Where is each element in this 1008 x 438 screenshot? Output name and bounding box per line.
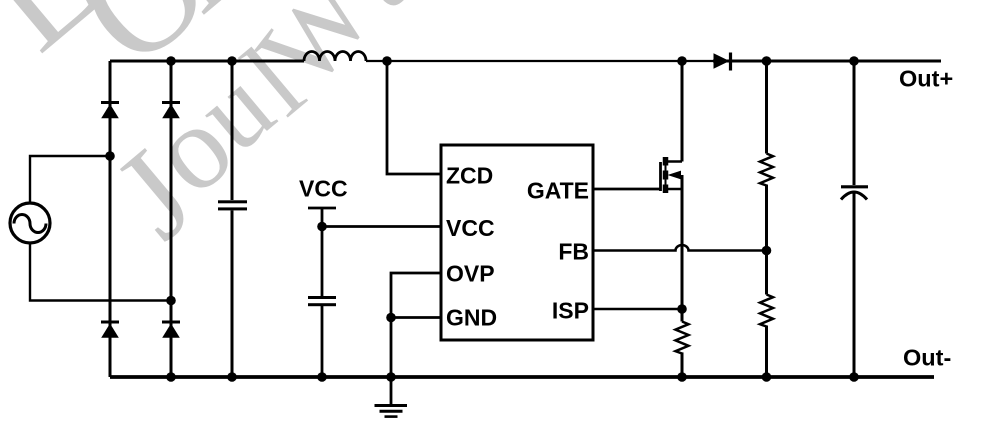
svg-text:Out+: Out+: [899, 66, 953, 92]
svg-text:Out-: Out-: [903, 345, 951, 371]
svg-text:ISP: ISP: [552, 298, 589, 324]
svg-text:OVP: OVP: [446, 261, 495, 287]
svg-text:VCC: VCC: [299, 176, 348, 202]
svg-text:GATE: GATE: [527, 178, 589, 204]
svg-text:VCC: VCC: [446, 215, 495, 241]
svg-text:FB: FB: [558, 239, 589, 265]
svg-text:ZCD: ZCD: [446, 163, 493, 189]
svg-text:GND: GND: [446, 305, 497, 331]
